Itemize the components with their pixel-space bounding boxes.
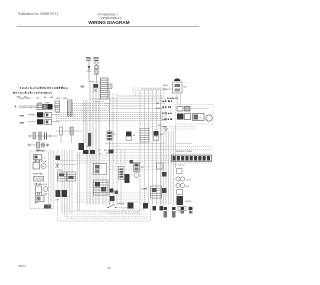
- wire: [176, 94, 178, 105]
- wire bundle: [72, 103, 110, 105]
- label cluster: [109, 150, 114, 154]
- svg-text:3WH: 3WH: [20, 123, 25, 125]
- wire: [109, 146, 165, 148]
- wire: [109, 100, 165, 102]
- thermostat TH1: [126, 132, 132, 137]
- svg-text:15 uF: 15 uF: [186, 180, 192, 182]
- wire: [50, 152, 52, 208]
- wire: [102, 176, 104, 205]
- wire: [140, 123, 165, 125]
- svg-text:NC: NC: [184, 87, 188, 89]
- node B: [29, 135, 30, 136]
- wire bundle main: [56, 112, 167, 114]
- svg-text:COMP: COMP: [142, 189, 148, 191]
- crankcase heater HR3: [177, 196, 184, 205]
- wire: [52, 121, 60, 123]
- wire: [56, 130, 82, 132]
- capacitor C7: [70, 127, 73, 135]
- svg-text:RED-: RED-: [163, 85, 168, 87]
- wire: [96, 75, 98, 84]
- svg-text:Publication No. 5995573721: Publication No. 5995573721: [18, 12, 58, 16]
- wire: [86, 100, 88, 205]
- label chain row: [19, 87, 22, 89]
- wire: [53, 106, 61, 108]
- label 2B: [163, 106, 164, 108]
- defrost timer TM1: [134, 163, 140, 172]
- switch S4: [157, 163, 164, 169]
- wire: [48, 152, 50, 208]
- wire: [105, 103, 165, 105]
- defrost thermostat TH2: [36, 186, 42, 193]
- svg-text:-WH: -WH: [156, 108, 161, 110]
- wire: [60, 135, 62, 143]
- splice: [162, 188, 167, 193]
- wire nested corner: [65, 205, 149, 216]
- wire pair: [83, 100, 85, 143]
- wire: [29, 144, 50, 146]
- capacitor C5: [41, 143, 43, 148]
- dark cluster: [83, 150, 89, 154]
- svg-text:TM: TM: [141, 167, 144, 169]
- terminal block TB1: [95, 70, 98, 75]
- wire nested corner: [67, 205, 148, 219]
- svg-text:TRR: TRR: [86, 58, 91, 60]
- capacitor C4: [44, 133, 46, 140]
- relay K3: [177, 114, 184, 120]
- connector J6: [37, 119, 43, 124]
- wire: [75, 210, 145, 212]
- legend item 1: [164, 207, 168, 210]
- node X1: [94, 89, 98, 93]
- motor cluster M2: [151, 186, 162, 198]
- run capacitor C10: [176, 177, 180, 181]
- svg-text:1 2 3 4 5 6: 1 2 3 4 5 6: [175, 165, 185, 167]
- capacitor C9: [177, 169, 183, 174]
- wire: [117, 95, 165, 97]
- run capacitor C11: [176, 183, 180, 187]
- wire: [52, 114, 60, 116]
- defrost heater HR1: [34, 177, 44, 182]
- svg-text:PTC: PTC: [58, 170, 63, 172]
- connector J5: [37, 112, 43, 117]
- svg-text:4 R: 4 R: [186, 186, 190, 188]
- overload protector OL1: [193, 114, 205, 121]
- splice: [130, 160, 134, 164]
- svg-text:DEFROST TIMER: DEFROST TIMER: [176, 151, 193, 153]
- wire rows under cluster: [162, 126, 196, 128]
- ground: [164, 129, 168, 132]
- junction: [79, 143, 85, 150]
- wire: [109, 98, 165, 100]
- heater HR2: [36, 196, 45, 202]
- label 4B: [163, 101, 165, 102]
- wire pair: [77, 152, 79, 211]
- splice bar: [88, 133, 91, 146]
- connector J2 pin strip: [101, 78, 109, 99]
- label chain row 2: [13, 92, 15, 94]
- wire: [120, 150, 122, 205]
- legend item 2: [172, 207, 176, 210]
- capacitor C1: [95, 61, 99, 65]
- wire band: [76, 155, 213, 157]
- fresh food compartment dashed box: [58, 150, 151, 221]
- wire riser: [70, 205, 140, 212]
- svg-text:ALARM SW: ALARM SW: [167, 97, 178, 100]
- wire ticks: [24, 105, 31, 109]
- lamp L1: [34, 155, 42, 160]
- wire: [160, 95, 162, 205]
- label 6B: [162, 119, 165, 120]
- wire corner: [138, 93, 166, 96]
- switch S3: [56, 163, 60, 168]
- relay K5: [62, 190, 68, 197]
- plug P1: [88, 66, 91, 69]
- capacitor C3: [38, 132, 40, 141]
- wire bundle vertical: [89, 81, 91, 205]
- switch S1: [94, 84, 99, 88]
- svg-text:M: M: [42, 166, 44, 168]
- svg-text:08/14: 08/14: [18, 264, 26, 268]
- svg-text:AB-: AB-: [81, 86, 85, 89]
- svg-text:EVAP FAN: EVAP FAN: [33, 173, 43, 176]
- splice: [162, 172, 167, 177]
- header rule: [17, 26, 199, 28]
- evaporator fan motor M1: [33, 163, 40, 170]
- wire bus right: [139, 90, 141, 205]
- legend item 3: [181, 207, 185, 210]
- legend item 4: [189, 207, 193, 210]
- wire: [57, 160, 76, 162]
- compartment dashed outline: [176, 105, 214, 125]
- resistor R5: [177, 190, 183, 195]
- wire: [28, 114, 37, 116]
- label: [33, 160, 36, 163]
- connector J3: [37, 104, 43, 110]
- wire bus vertical: [109, 90, 111, 205]
- resistor R3: [177, 107, 183, 112]
- svg-text:GRN: GRN: [163, 127, 168, 129]
- wire: [105, 176, 107, 205]
- lamp L2: [128, 203, 134, 209]
- wire elbow: [90, 98, 104, 100]
- wire: [190, 108, 209, 110]
- wire corner: [133, 88, 166, 96]
- thermistor RT1: [178, 207, 186, 211]
- wire: [28, 135, 58, 137]
- terminal board TB2: [58, 172, 67, 181]
- label: [34, 193, 37, 195]
- relay K2: [107, 131, 112, 140]
- light switch S5: [107, 207, 108, 208]
- wire: [180, 94, 182, 105]
- buzzer BZ1 cap: [174, 78, 180, 81]
- capacitor C2: [33, 133, 36, 140]
- switch S2: [154, 131, 159, 136]
- wire: [105, 143, 165, 145]
- wire: [28, 121, 37, 123]
- terminal strip TB3: [172, 155, 212, 162]
- cluster small: [153, 206, 157, 211]
- relay contacts K6: [119, 167, 125, 180]
- connector J7: [68, 100, 73, 116]
- wire: [57, 164, 76, 166]
- splice cluster: [110, 189, 114, 193]
- freezer compartment dashed box: [30, 151, 54, 209]
- label: [34, 183, 37, 185]
- start relay SR1: [125, 174, 130, 183]
- wire: [148, 126, 165, 128]
- wire: [165, 149, 213, 151]
- wire: [19, 105, 37, 107]
- svg-text:DR SW: DR SW: [118, 204, 125, 206]
- wire: [176, 143, 192, 145]
- wire: [152, 128, 165, 130]
- wire: [113, 149, 165, 151]
- wire: [88, 72, 90, 82]
- wire: [124, 150, 126, 166]
- wire rows: [108, 166, 165, 168]
- wire corner: [136, 91, 167, 97]
- wire: [89, 81, 94, 83]
- wire nested corner: [62, 205, 148, 214]
- wire: [141, 88, 173, 90]
- relay K1: [48, 104, 53, 110]
- splice blob: [44, 205, 51, 209]
- resistor R2: [37, 142, 40, 148]
- wire: [116, 207, 128, 209]
- wire: [175, 125, 177, 168]
- resistor R4: [185, 107, 191, 112]
- node C: [28, 144, 31, 147]
- wire bundle center vertical: [61, 150, 63, 213]
- svg-text:MTR: MTR: [94, 58, 99, 60]
- wire: [165, 146, 213, 148]
- wire: [105, 105, 145, 107]
- junction box: [108, 84, 112, 89]
- svg-text:WIRING DIAGRAM: WIRING DIAGRAM: [88, 20, 129, 25]
- label 1B: [163, 113, 164, 114]
- buzzer BZ1 body: [173, 82, 183, 93]
- svg-text:A: A: [15, 105, 17, 109]
- svg-text:23: 23: [107, 266, 111, 270]
- resistor R1: [95, 66, 98, 69]
- wire: [105, 152, 165, 154]
- fuse F1: [56, 156, 61, 161]
- svg-text:PWR CORD: PWR CORD: [19, 98, 31, 100]
- wire: [100, 211, 140, 213]
- cluster: [143, 203, 148, 209]
- splice: [110, 196, 115, 201]
- connector J9: [140, 129, 149, 143]
- svg-text:HTR 8: HTR 8: [186, 201, 193, 203]
- defrost thermo circle: [134, 173, 139, 178]
- wire: [88, 61, 90, 67]
- compressor terminal cluster: [94, 180, 109, 195]
- wire riser: [120, 205, 145, 209]
- relay K4: [56, 190, 61, 197]
- compressor cluster: [94, 164, 107, 175]
- connector J4: [43, 104, 47, 109]
- wire bundle right vertical: [163, 131, 165, 205]
- wire band lower: [75, 192, 166, 194]
- wire: [110, 108, 165, 110]
- svg-text:2WH: 2WH: [20, 116, 25, 118]
- run capacitor C8: [206, 115, 212, 121]
- connector J8: [55, 101, 60, 112]
- wire: [108, 212, 140, 214]
- capacitor C6: [60, 127, 63, 135]
